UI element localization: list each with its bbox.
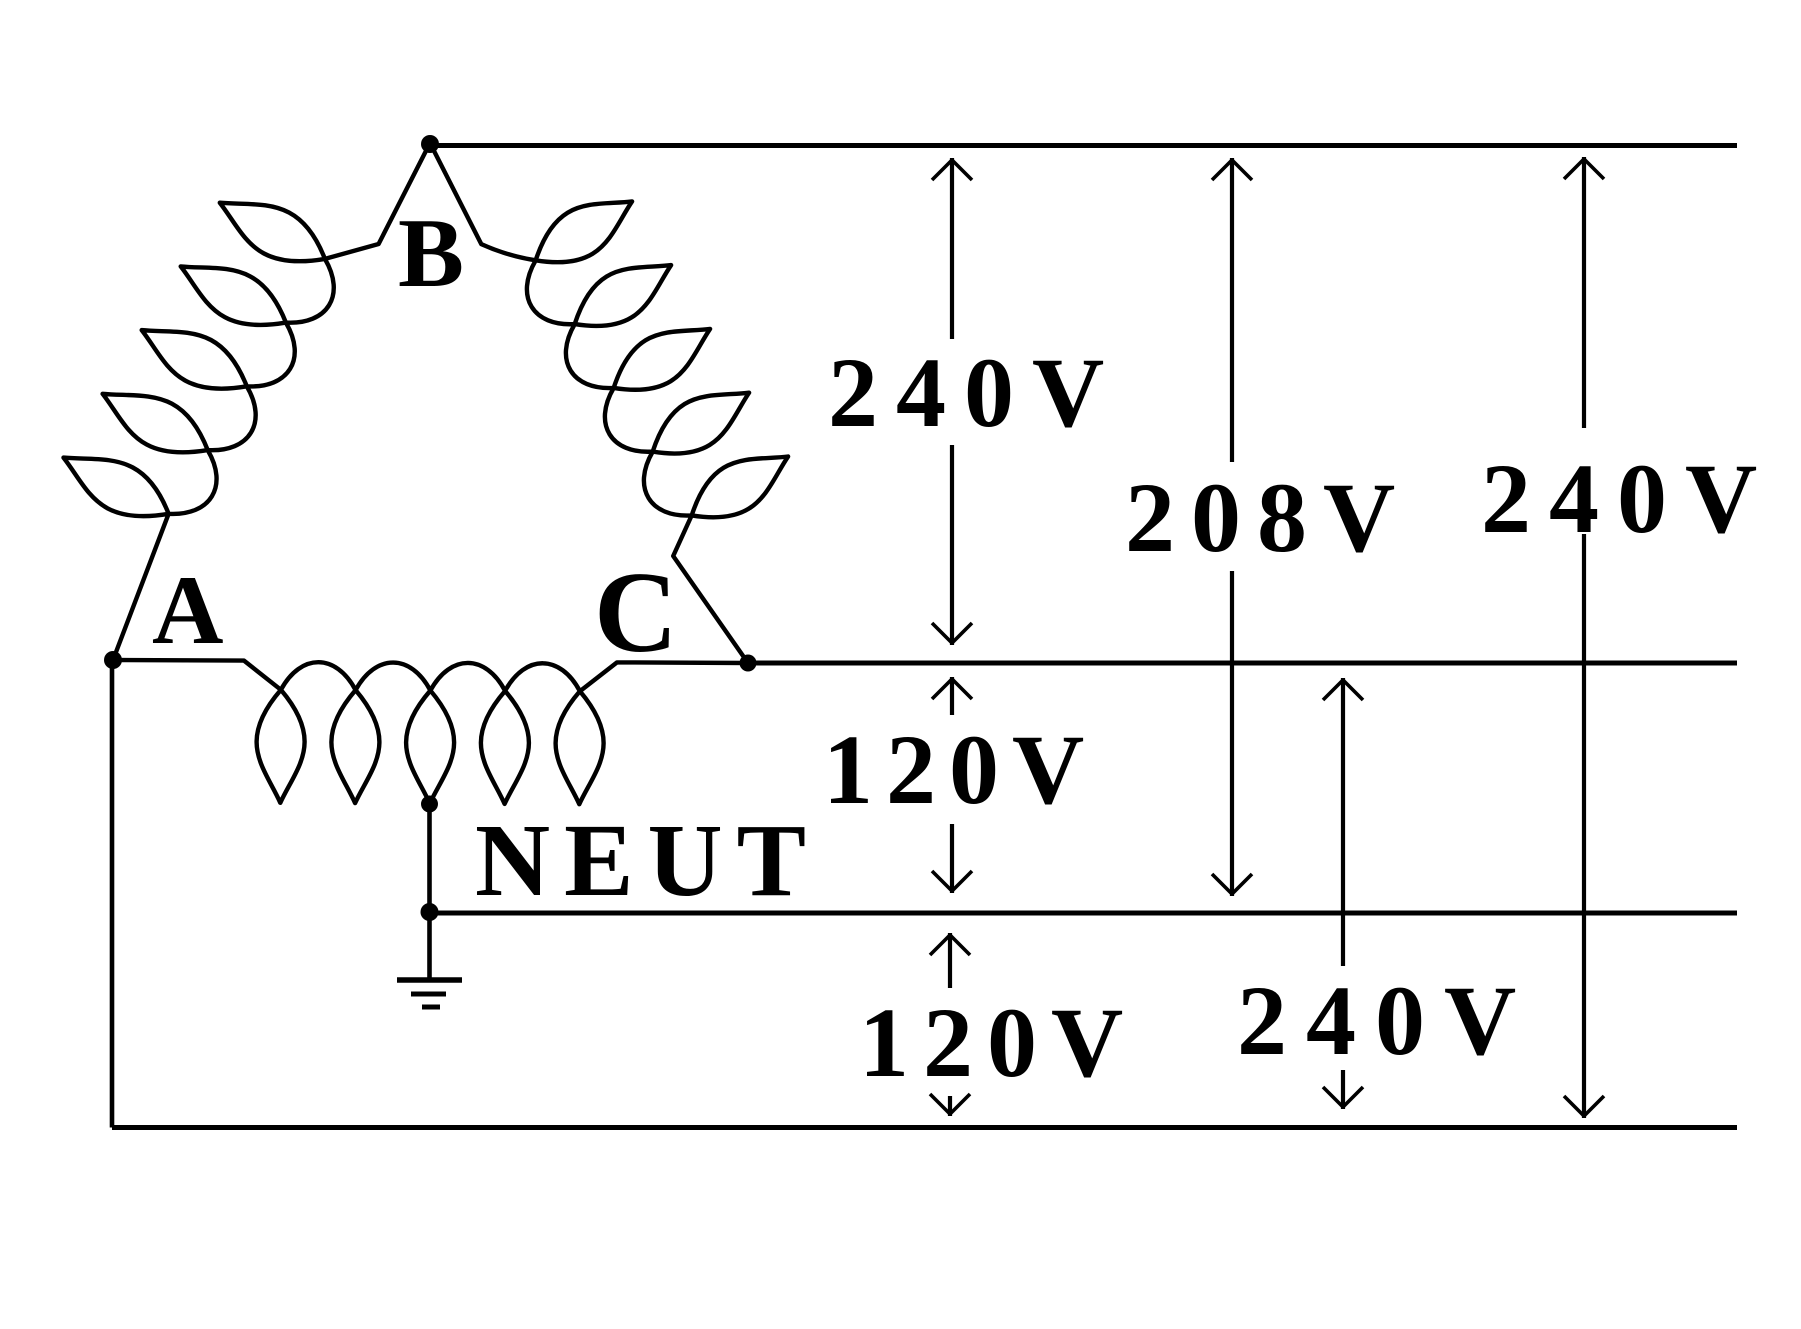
dimension arrow 240V (B to C) xyxy=(950,158,954,339)
svg-text:A: A xyxy=(152,556,224,665)
wire A down xyxy=(110,660,115,1128)
svg-text:C: C xyxy=(594,549,678,677)
node B xyxy=(421,135,439,153)
wire center tap to neutral and ground xyxy=(427,804,432,980)
wire phase A (bottom line) xyxy=(112,1125,1737,1130)
ground xyxy=(397,980,462,1007)
node center tap xyxy=(421,796,438,813)
dimension arrow 120V (neutral to A) xyxy=(948,933,952,988)
node neutral junction xyxy=(421,903,439,921)
node A xyxy=(104,651,122,669)
transformer winding A-B xyxy=(64,143,431,660)
dimension arrow 240V (C to A) xyxy=(1341,678,1345,966)
svg-text:NEUT: NEUT xyxy=(475,803,820,918)
svg-text:240V: 240V xyxy=(828,337,1122,448)
wire phase C xyxy=(748,661,1737,666)
transformer winding B-C xyxy=(430,143,788,663)
transformer winding A-C (center-tapped) xyxy=(113,660,748,804)
svg-text:120V: 120V xyxy=(823,714,1097,825)
dimension arrow 208V (B to neutral) xyxy=(1230,158,1234,462)
svg-text:B: B xyxy=(398,199,464,308)
wire phase B (top line) xyxy=(430,143,1737,148)
svg-text:120V: 120V xyxy=(859,987,1137,1098)
node C xyxy=(740,655,757,672)
svg-text:208V: 208V xyxy=(1125,462,1411,573)
svg-text:240V: 240V xyxy=(1481,443,1775,554)
dimension arrow 120V (C to neutral) xyxy=(950,677,954,715)
wire neutral xyxy=(430,911,1737,916)
dimension arrow 240V (B to A) xyxy=(1582,157,1586,428)
svg-text:240V: 240V xyxy=(1237,965,1535,1076)
